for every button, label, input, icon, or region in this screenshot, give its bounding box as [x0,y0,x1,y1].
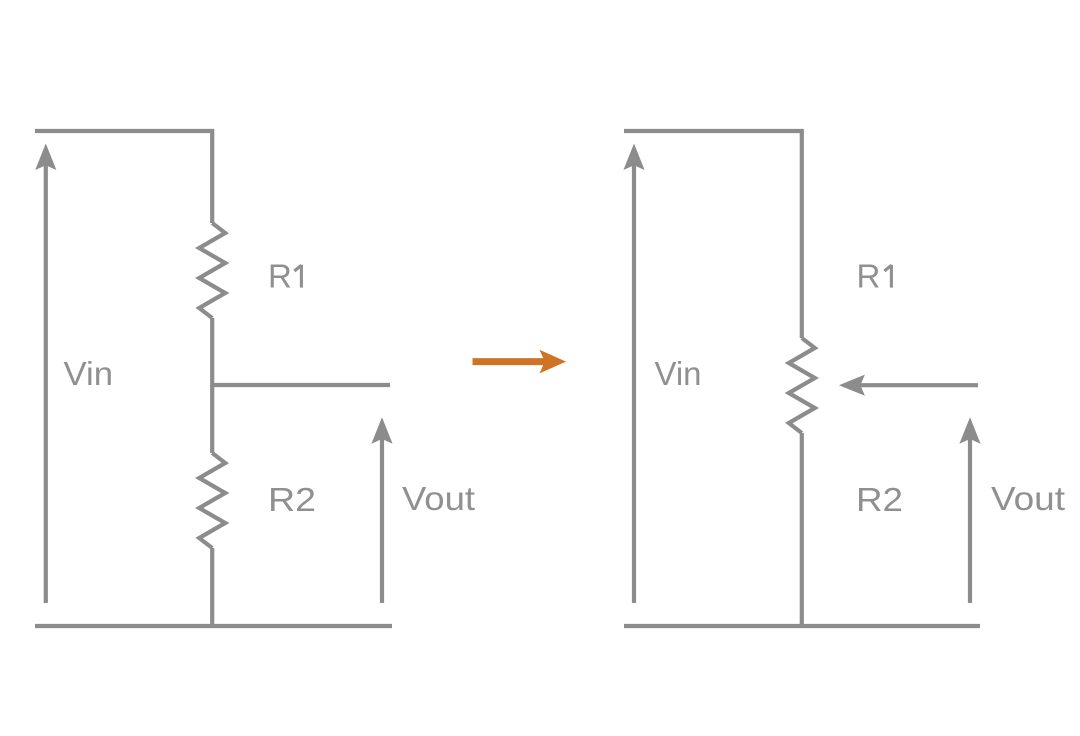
arrow Vout (left circuit) head [371,417,392,443]
wire: horizontal tap wire from R1/R2 junction to Vout [212,383,390,387]
svg-text:Vin: Vin [64,355,114,392]
wire: right circuit top rail from Vin top to potentiometer top [624,129,802,338]
arrow Vin (right circuit) shaft [632,164,636,603]
wire: vertical segment from potentiometer bottom to bottom rail [800,433,804,626]
svg-text:Vout: Vout [991,480,1065,517]
transformation arrow (orange) shaft [473,358,547,365]
potentiometer R1/R2 zigzag (right circuit) [789,338,815,433]
potentiometer wiper arrow head [839,375,865,396]
transformation arrow (orange) head [540,350,567,374]
wire: right circuit bottom rail [624,624,980,628]
svg-text:R2: R2 [268,481,316,518]
svg-text:R: R [857,258,881,295]
arrow Vin (left circuit) head [35,144,56,171]
svg-text:R: R [268,258,292,295]
resistor R2 (left circuit) zigzag [199,453,225,548]
svg-text:Vin: Vin [655,355,702,392]
resistor R1 (left circuit) zigzag [199,223,225,318]
svg-text:R2: R2 [856,481,903,518]
wire: vertical segment between R1 and R2 through the tap node [210,318,214,453]
arrow Vin (left circuit) shaft [44,164,48,603]
arrow Vout (right circuit) shaft [968,438,972,604]
arrow Vout (left circuit) shaft [380,438,384,604]
wire: left circuit bottom rail [35,624,392,628]
wire: left circuit top rail from Vin top to R1 top [35,129,212,223]
arrow Vout (right circuit) head [959,417,980,443]
svg-text:Vout: Vout [402,480,475,517]
potentiometer wiper arrow shaft [859,383,978,387]
arrow Vin (right circuit) head [623,144,644,171]
wire: vertical segment from R2 bottom to bottom rail [210,548,214,626]
